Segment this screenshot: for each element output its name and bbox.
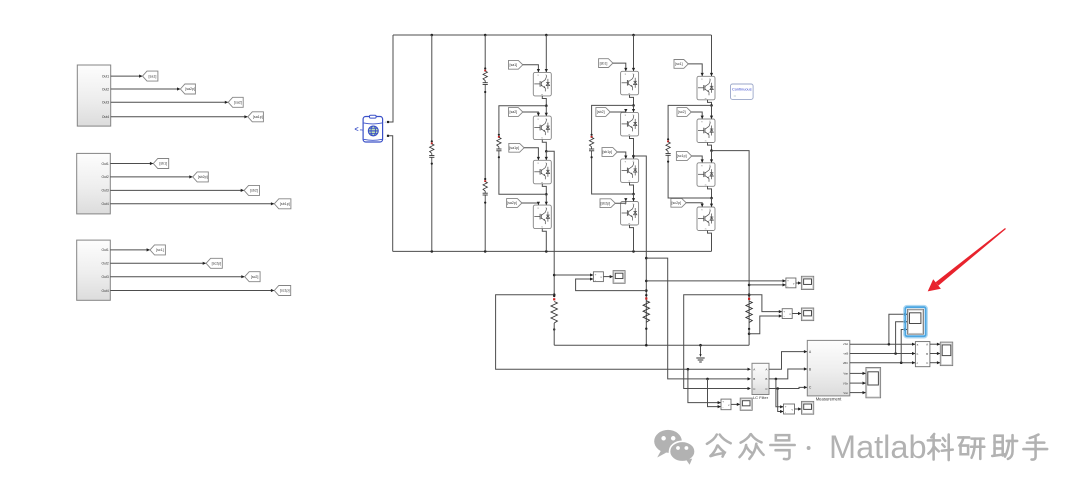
wire gate [sa2] to QA2 <box>523 112 540 116</box>
scope S2 <box>801 276 813 289</box>
from tag [sb1p] <box>602 148 617 157</box>
svg-text:[sa1p]: [sa1p] <box>253 115 263 119</box>
svg-text:Out1: Out1 <box>101 248 108 252</box>
svg-text:[sb1]: [sb1] <box>600 61 608 65</box>
wire Out1 to [sc1] <box>110 248 150 251</box>
svg-text:B: B <box>926 352 928 356</box>
svg-text:[sa2]: [sa2] <box>234 101 242 105</box>
svg-text:+: + <box>783 309 785 313</box>
svg-text:[sa1]: [sa1] <box>510 63 518 67</box>
wire Out4 to [sc1p] <box>110 289 274 292</box>
wire gate [sb1] to QB1 <box>613 63 628 71</box>
resistor-capacitor clamp RC leg B <box>589 134 594 159</box>
wire vSA to three-phase block <box>850 343 916 346</box>
wire vsB to three-phase block <box>850 352 916 355</box>
three-phase selector block <box>915 342 930 367</box>
goto tag [sc2] <box>245 272 260 282</box>
svg-text:[sb2]: [sb2] <box>597 110 605 114</box>
transistor QB3 (IGBT/Diode) <box>621 159 639 183</box>
goto tag [sa2p] <box>180 84 195 94</box>
svg-text:[sa1p]: [sa1p] <box>509 146 519 150</box>
svg-text:Out3: Out3 <box>101 189 108 193</box>
svg-text:m: m <box>628 180 630 182</box>
svg-text:[sa2p]: [sa2p] <box>507 201 517 205</box>
wire DC+ to QC1 collector <box>710 35 713 76</box>
wire QB4 emitter to DC- rail <box>630 225 634 251</box>
wire phase A to voltmeter V1 <box>554 273 593 276</box>
wire Out1 to [sb1] <box>110 162 153 165</box>
wire vBC to three-phase block <box>850 361 916 364</box>
wire filter B branch to voltmeter V4 minus <box>708 379 722 408</box>
wire filter out A to Measurement A <box>769 350 807 369</box>
svg-text:-: - <box>722 405 723 409</box>
wire node C34 to QC4 collector <box>710 198 713 207</box>
svg-text:B: B <box>809 367 811 371</box>
wire Van to scope S8 <box>850 372 866 375</box>
svg-text:+: + <box>787 279 789 283</box>
wire vBC branch to scope S6 <box>901 328 907 363</box>
wire load neutral <box>554 344 749 347</box>
annotation red arrow <box>928 228 1006 291</box>
svg-text:[sc1]: [sc1] <box>156 248 164 252</box>
svg-text:[sb1p]: [sb1p] <box>603 150 613 154</box>
svg-text:B: B <box>765 377 767 381</box>
wire Out2 to [sc2p] <box>110 262 206 265</box>
wire phase C tap to voltmeter V3 <box>749 295 782 314</box>
wire selector B to scope S7 <box>930 352 940 355</box>
wire battery plus to top rail <box>389 35 393 122</box>
resistor load RC <box>746 294 752 345</box>
scope S5 <box>802 401 814 414</box>
wire snubber rail 1 <box>431 35 433 251</box>
from tag [sb2] <box>596 108 610 117</box>
svg-text:Out1: Out1 <box>102 74 109 78</box>
wire QC1 emitter to node C12 <box>708 100 713 107</box>
svg-text:-: - <box>595 278 596 282</box>
svg-text:Out4: Out4 <box>102 115 109 119</box>
svg-text:-: - <box>784 315 785 319</box>
wire snubber rail 2 <box>484 35 486 251</box>
wire bottom DC rail <box>393 250 712 253</box>
resistor-capacitor clamp RC leg C <box>666 138 671 163</box>
voltmeter V2 <box>786 278 796 288</box>
wire node B23 to QB3 collector <box>632 156 635 159</box>
from tag [sa2p] <box>507 199 522 208</box>
svg-text:Out3: Out3 <box>101 275 108 279</box>
wire Out4 to [sb1p] <box>110 202 274 205</box>
goto tag [sa2] <box>228 97 243 107</box>
wire gate [sb2p] to QB4 <box>615 198 627 203</box>
svg-text:[sb1p]: [sb1p] <box>280 202 290 206</box>
svg-text:[sb1]: [sb1] <box>159 162 167 166</box>
svg-text:Matlab: Matlab <box>829 429 927 465</box>
svg-text:m: m <box>628 134 630 136</box>
svg-text:B: B <box>753 377 755 381</box>
svg-text:LC Filter: LC Filter <box>753 395 769 400</box>
svg-text:Out1: Out1 <box>101 162 108 166</box>
wire gate [sc2p] to QC4 <box>686 203 704 207</box>
voltmeter V3 <box>782 309 792 319</box>
svg-text:[sc1]: [sc1] <box>675 62 683 66</box>
transistor QC2 (IGBT/Diode) <box>697 119 715 143</box>
resistor load RB <box>643 294 649 330</box>
svg-text:m: m <box>541 138 543 140</box>
powergui Continuous block <box>731 84 754 99</box>
svg-text:Out2: Out2 <box>101 262 108 266</box>
wire Out3 to [sc2] <box>110 275 244 278</box>
wire gate [sa1] to QA1 <box>523 65 540 73</box>
watermark wechat logo <box>654 430 695 465</box>
svg-text:[sc1p]: [sc1p] <box>677 154 687 158</box>
wire node C23 to QC3 collector <box>710 151 713 163</box>
svg-text:m: m <box>705 141 707 143</box>
wire phase A tap to filter input A <box>496 295 751 371</box>
wire QA4 emitter to DC- rail <box>542 229 546 252</box>
wire node B12 to QB2 collector <box>632 105 635 112</box>
wire gate [sc2] to QC2 <box>691 112 704 119</box>
transistor QB1 (IGBT/Diode) <box>621 71 639 95</box>
transistor QA4 (IGBT/Diode) <box>533 205 551 229</box>
wire QA3 emitter to node A34 <box>542 184 547 196</box>
svg-text:[sc2p]: [sc2p] <box>672 201 682 205</box>
scope S6 (selected, highlighted) <box>905 306 927 337</box>
wire filter out B to Measurement B <box>769 367 807 380</box>
svg-text:m: m <box>360 128 363 132</box>
wire node B34 to QB4 collector <box>632 194 635 202</box>
svg-text:+: + <box>384 121 386 125</box>
scope S7 <box>940 342 952 366</box>
wire gate [sc1] to QC1 <box>688 64 704 76</box>
ground <box>696 345 704 362</box>
svg-text:[sc2p]: [sc2p] <box>212 262 222 266</box>
scope S1 <box>613 271 625 284</box>
wire filter C branch to voltmeter V5 minus <box>778 389 784 414</box>
scope S3 <box>801 308 813 321</box>
svg-text:A: A <box>765 368 767 372</box>
wire gate [sa1p] to QA3 <box>524 148 540 161</box>
wire QC3 emitter to node C34 <box>708 186 713 199</box>
wire Out3 to [sa2] <box>111 101 229 104</box>
subsystem U2 pulse generator B <box>77 153 111 214</box>
svg-text:[sa2]: [sa2] <box>510 110 518 114</box>
transistor QB4 (IGBT/Diode) <box>621 202 639 226</box>
svg-text:Measurement: Measurement <box>816 397 842 402</box>
svg-text:[sc1p]: [sc1p] <box>280 289 290 293</box>
goto tag [sb2p] <box>193 172 209 182</box>
svg-text:Out4: Out4 <box>101 202 108 206</box>
watermark text <box>707 429 1047 465</box>
wire Vsn to scope S8 <box>850 391 866 394</box>
svg-text:-: - <box>787 284 788 288</box>
wire filter A branch to voltmeter V4 <box>688 369 721 404</box>
svg-text:vsB: vsB <box>844 352 849 356</box>
wire phase C tap to filter input C <box>684 295 751 390</box>
from tag [sa1p] <box>509 143 524 152</box>
wire phase B to voltmeter V2 <box>646 279 786 282</box>
wire DC+ to QB1 collector <box>632 35 635 71</box>
svg-text:vBC: vBC <box>843 361 848 365</box>
transistor QC3 (IGBT/Diode) <box>697 163 715 187</box>
transistor QB2 (IGBT/Diode) <box>621 112 639 135</box>
svg-text:[sc2]: [sc2] <box>251 275 259 279</box>
svg-text:[sa2p]: [sa2p] <box>185 87 195 91</box>
goto tag [sb1] <box>153 159 168 169</box>
subsystem U3 pulse generator C <box>77 240 111 300</box>
wire node A34 to QA4 collector <box>545 194 548 205</box>
transistor QC4 (IGBT/Diode) <box>697 207 715 231</box>
svg-text:m: m <box>705 184 707 186</box>
transistor QC1 (IGBT/Diode) <box>697 76 715 100</box>
voltmeter V1 <box>593 272 603 282</box>
svg-text:[sb2]: [sb2] <box>250 189 258 193</box>
wire clamp bracket leg C <box>668 105 711 198</box>
svg-text:[sb2p]: [sb2p] <box>198 175 208 179</box>
wire QA2 emitter to node A23 <box>542 140 547 153</box>
resistor-capacitor snubber RC1 <box>429 140 434 165</box>
svg-text:A: A <box>926 343 928 347</box>
scope S4 <box>740 398 752 410</box>
svg-text:+: + <box>785 405 787 409</box>
svg-text:m: m <box>541 94 543 96</box>
from tag [sc1p] <box>676 152 691 161</box>
svg-text:m: m <box>541 182 543 184</box>
from tag [sc1] <box>674 60 688 69</box>
wire QC2 emitter to node C23 <box>708 143 713 152</box>
wire clamp bracket leg A <box>499 106 546 195</box>
wire phase C to voltmeter V2 minus <box>749 283 786 286</box>
resistor-capacitor clamp RC leg A <box>496 134 501 159</box>
wire QB3 emitter to node B34 <box>630 182 635 195</box>
wire top DC rail <box>393 34 711 37</box>
wire filter B branch to voltmeter V5 <box>776 379 784 409</box>
resistor-capacitor snubber RC2 <box>483 67 488 93</box>
wire V2 to scope S2 <box>796 281 802 284</box>
transistor QA1 (IGBT/Diode) <box>533 72 551 96</box>
goto tag [sa1p] <box>248 112 264 122</box>
Measurement subsystem <box>807 340 850 401</box>
scope S8 <box>866 368 881 398</box>
wire gate [sc1p] to QC3 <box>692 156 704 163</box>
wire V1 to scope S1 <box>603 275 613 278</box>
wire QC4 emitter to DC- rail <box>708 231 712 252</box>
wire Out4 to [sa1p] <box>111 115 248 118</box>
wire vSA branch to scope S6 <box>889 313 908 345</box>
wire DC+ to QA1 collector <box>545 35 548 72</box>
wire QB2 emitter to node B23 <box>630 136 635 157</box>
goto tag [sc2p] <box>206 258 222 268</box>
from tag [sa2] <box>509 108 523 117</box>
wire node C12 to QC2 collector <box>710 105 713 119</box>
transistor QA2 (IGBT/Diode) <box>533 116 551 140</box>
wire gate [sb1p] to QB3 <box>617 152 627 159</box>
svg-text:<: < <box>355 127 359 134</box>
svg-text:Out3: Out3 <box>102 101 109 105</box>
svg-text:Out2: Out2 <box>102 87 109 91</box>
svg-text:m: m <box>628 93 630 95</box>
svg-text:-: - <box>785 410 786 414</box>
wire selector A to scope S7 <box>930 343 940 346</box>
wire node A23 to QA3 collector <box>545 151 548 160</box>
wire clamp bracket leg B <box>592 105 634 194</box>
wire Out2 to [sa2p] <box>111 87 181 90</box>
wire vsB branch to scope S6 <box>896 320 908 353</box>
svg-text:Continuous: Continuous <box>732 87 752 92</box>
resistor-capacitor snubber RC3 <box>483 178 488 204</box>
svg-text:VSn: VSn <box>843 381 849 385</box>
svg-text:A: A <box>753 368 755 372</box>
svg-text:m: m <box>705 98 707 100</box>
goto tag [sb1p] <box>274 199 291 209</box>
goto tag [sb2] <box>244 185 259 195</box>
DC voltage source B1 (battery) <box>355 115 390 142</box>
wire selector C to scope S7 <box>930 361 940 364</box>
voltmeter V4 <box>721 399 731 410</box>
from tag [sb1] <box>599 59 613 68</box>
svg-text:Out4: Out4 <box>101 289 108 293</box>
wire Out3 to [sb2] <box>110 189 244 192</box>
voltmeter V5 <box>784 404 795 414</box>
svg-text:m: m <box>541 227 543 229</box>
svg-text:[sb2p]: [sb2p] <box>601 201 611 205</box>
svg-text:m: m <box>705 229 707 231</box>
wire phase A output <box>546 151 555 294</box>
LC Filter block <box>752 363 769 400</box>
svg-text:=: = <box>734 93 737 98</box>
wire Out2 to [sb2p] <box>110 175 192 178</box>
wire QB1 emitter to node B12 <box>630 95 635 107</box>
wire V4 to scope S4 <box>731 403 740 406</box>
wire QA1 emitter to node A12 <box>542 96 547 107</box>
wire phase B to filter branch <box>646 258 751 380</box>
wire gate [sb2] to QB2 <box>610 109 627 112</box>
wire filter out C to Measurement C <box>769 386 807 390</box>
svg-text:m: m <box>628 223 630 225</box>
from tag [sc2] <box>677 108 691 117</box>
svg-text:vSA: vSA <box>843 342 848 346</box>
wire V3 to scope S3 <box>792 312 801 315</box>
svg-text:+: + <box>722 400 724 404</box>
wire battery minus to bottom rail <box>389 136 393 252</box>
goto tag [sc1p] <box>274 286 290 296</box>
from tag [sa1] <box>509 60 523 69</box>
wire Out1 to [sa1] <box>111 75 143 78</box>
svg-text:[sa1]: [sa1] <box>149 74 157 78</box>
from tag [sb2p] <box>600 199 615 208</box>
wire phase B output <box>634 156 648 345</box>
from tag [sc2p] <box>671 198 686 207</box>
goto tag [sa1] <box>143 71 158 81</box>
wire phase B to voltmeter V1 minus <box>576 277 647 290</box>
svg-text:Van: Van <box>843 372 848 376</box>
subsystem U1 pulse generator A <box>77 65 110 126</box>
goto tag [sc1] <box>150 245 165 255</box>
transistor QA3 (IGBT/Diode) <box>533 160 551 184</box>
svg-text:Vsn: Vsn <box>843 391 848 395</box>
wire node A12 to QA2 collector <box>545 106 548 116</box>
wire phase C output <box>712 151 751 334</box>
svg-text:[sc2]: [sc2] <box>678 110 686 114</box>
wire RC bottom to voltmeter V3 minus <box>749 314 782 333</box>
wire VSn to scope S8 <box>850 382 866 385</box>
wire V5 to scope S5 <box>795 407 802 410</box>
svg-text:Out2: Out2 <box>101 175 108 179</box>
resistor load RA <box>551 293 557 345</box>
wire gate [sa2p] to QA4 <box>522 202 540 205</box>
svg-text:+: + <box>595 272 597 276</box>
